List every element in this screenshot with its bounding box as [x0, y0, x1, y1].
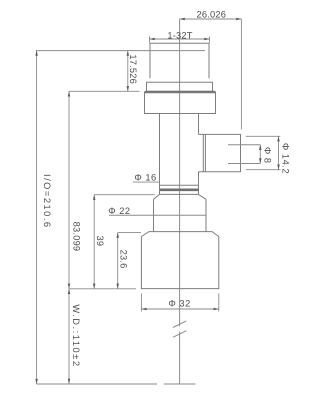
- svg-text:39: 39: [95, 236, 105, 247]
- svg-text:83.099: 83.099: [72, 222, 82, 252]
- wide flange (nut): [145, 92, 216, 113]
- neck bottom seat line: [160, 193, 199, 195]
- neck right edge upper: [198, 114, 200, 135]
- dim W.D. line: [68, 289, 70, 384]
- arrows phi32: [141, 308, 146, 311]
- flange seat dark line: [145, 91, 216, 93]
- arrows phi8: [259, 145, 262, 150]
- svg-text:1-32T: 1-32T: [167, 30, 192, 40]
- svg-text:W.D.:110±2: W.D.:110±2: [71, 304, 81, 367]
- svg-text:23.6: 23.6: [119, 250, 129, 269]
- bottom extension line: [37, 383, 157, 385]
- neck groove dark band: [160, 189, 199, 192]
- thread relief line / top extension line: [36, 50, 205, 52]
- svg-text:Φ 22: Φ 22: [108, 206, 130, 216]
- dim 1-32T extension lines: [150, 37, 210, 43]
- arrows 1-32T: [150, 38, 155, 41]
- flange seat extension line: [69, 90, 140, 92]
- phi32 extension lines: [141, 294, 218, 312]
- arrows W.D.: [68, 289, 71, 294]
- dim 26.026 right extension: [240, 19, 242, 130]
- dim phi32 line: [141, 308, 218, 310]
- dim 39 line: [93, 195, 95, 289]
- svg-text:Φ 32: Φ 32: [168, 299, 190, 309]
- svg-text:Φ 16: Φ 16: [134, 172, 156, 182]
- svg-text:Φ 14.2: Φ 14.2: [280, 143, 290, 174]
- neck right edge lower: [198, 172, 200, 195]
- arrows 26.026: [180, 18, 185, 21]
- dim 26.026 line: [180, 18, 242, 20]
- dim phi8 line: [259, 145, 261, 164]
- dim 83.099 line: [68, 91, 70, 288]
- arrows phi14.2: [277, 136, 280, 141]
- cable end tick: [164, 383, 196, 385]
- phi8 bore lines: [228, 145, 260, 164]
- dim 23.6 line: [117, 233, 119, 289]
- neck groove lines: [160, 184, 199, 186]
- thin flange: [147, 82, 213, 91]
- phi14.2 extension lines: [246, 136, 280, 169]
- centerline: [179, 19, 181, 384]
- arrows 83.099: [68, 91, 71, 96]
- arrows I/O: [35, 51, 38, 56]
- side port double collar lines: [203, 134, 205, 171]
- svg-text:Φ 8: Φ 8: [263, 147, 273, 164]
- dim 17.526 line: [127, 51, 129, 92]
- chamfer neck to phi22: [154, 194, 207, 199]
- dim 1-32T line: [150, 38, 210, 40]
- phi22 cylinder sides: [154, 199, 207, 231]
- dim 39 extension: [94, 194, 155, 196]
- svg-text:I/O=210.6: I/O=210.6: [42, 174, 52, 229]
- body top edge with corner chamfers: [141, 232, 218, 237]
- svg-text:26.026: 26.026: [196, 10, 226, 20]
- arrows 23.6: [116, 233, 119, 238]
- thread cylinder 1-32T top rect: [150, 43, 209, 78]
- dim I/O overall line: [36, 51, 38, 384]
- phi16 leader: [133, 181, 160, 183]
- side port outline: [199, 134, 241, 171]
- phi22 leader line: [109, 214, 206, 216]
- dim phi14.2 line: [278, 136, 280, 169]
- arrows 17.526: [127, 51, 130, 56]
- svg-text:17.526: 17.526: [128, 54, 138, 84]
- bottom shared extension at body base: [69, 288, 136, 290]
- neck left edge: [159, 114, 161, 195]
- arrows 39: [93, 195, 96, 200]
- cable break slashes: [173, 321, 186, 337]
- body phi32 sides and bottom: [141, 237, 218, 289]
- dim 23.6 extension: [118, 232, 141, 234]
